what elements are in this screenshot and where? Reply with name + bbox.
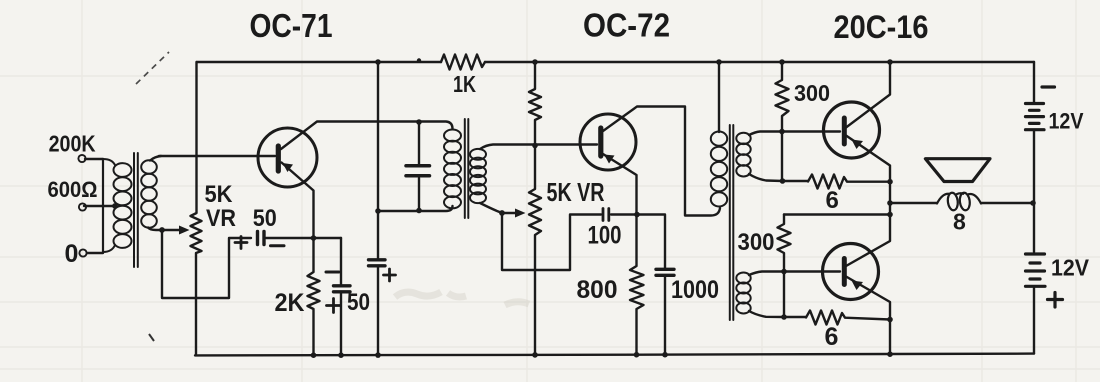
svg-text:OC-72: OC-72 [583, 7, 670, 44]
svg-text:600Ω: 600Ω [48, 177, 98, 202]
svg-text:800: 800 [577, 276, 618, 304]
svg-text:20C-16: 20C-16 [834, 9, 929, 45]
svg-text:5K VR: 5K VR [547, 177, 605, 207]
svg-text:50: 50 [347, 289, 370, 316]
svg-text:300: 300 [738, 229, 775, 256]
svg-text:300: 300 [794, 80, 830, 106]
svg-text:8: 8 [953, 209, 966, 235]
svg-text:12V: 12V [1051, 255, 1090, 281]
svg-text:1K: 1K [453, 71, 476, 97]
svg-text:12V: 12V [1049, 109, 1084, 134]
svg-text:200K: 200K [49, 131, 96, 157]
svg-text:0: 0 [65, 240, 79, 268]
svg-text:5K: 5K [205, 181, 234, 208]
svg-text:2K: 2K [275, 289, 305, 317]
svg-text:50: 50 [253, 205, 277, 232]
svg-text:100: 100 [588, 222, 622, 250]
svg-text:6: 6 [825, 323, 839, 351]
svg-text:VR: VR [206, 205, 236, 232]
svg-text:1000: 1000 [671, 276, 719, 304]
svg-text:6: 6 [826, 187, 839, 214]
svg-text:OC-71: OC-71 [250, 7, 333, 44]
